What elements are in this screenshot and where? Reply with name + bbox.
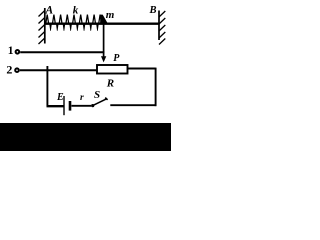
svg-text:R: R [106,78,114,90]
svg-text:m: m [106,9,115,21]
svg-text:r: r [80,93,84,103]
svg-text:P: P [113,53,120,64]
svg-text:S: S [94,89,100,101]
svg-text:k: k [73,4,79,16]
svg-text:E: E [56,92,64,103]
svg-text:A: A [45,5,54,17]
svg-text:1: 1 [8,45,14,57]
svg-text:2: 2 [6,63,12,77]
svg-text:B: B [149,5,157,16]
